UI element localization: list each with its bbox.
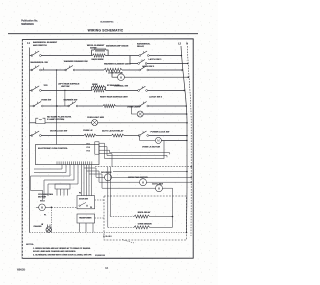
wire rung4 to L2: [149, 105, 186, 107]
svg-text:OVEN LIGHT 40W: OVEN LIGHT 40W: [87, 116, 104, 119]
wire line to lock circuit: [105, 141, 165, 159]
svg-text:OVEN SENSOR: OVEN SENSOR: [138, 223, 153, 225]
svg-text:BAKE 2600W: BAKE 2600W: [92, 58, 104, 61]
switch door lock: [31, 135, 33, 137]
dashed power board outline: [104, 196, 187, 240]
resistor bake element: [93, 54, 106, 57]
junction rung2/L2: [181, 69, 183, 71]
wire door sw line: [96, 176, 105, 178]
svg-text:COOLING FAN: COOLING FAN: [38, 193, 53, 196]
switch thermal: [138, 90, 140, 92]
wire board to P2: [86, 165, 88, 196]
junction lockmotor/N: [188, 76, 190, 78]
wire to lock motor: [112, 70, 118, 77]
junction latch/N: [187, 63, 189, 65]
resistor LF surface element: [103, 105, 115, 108]
connector light assembly: [36, 118, 45, 123]
wire rung1 from L1: [30, 55, 32, 57]
lamp oven cavity: [92, 120, 98, 126]
svg-text:DOOR SW: DOOR SW: [79, 199, 88, 201]
svg-text:RIGHT REAR SURFACE UNIT: RIGHT REAR SURFACE UNIT: [100, 96, 129, 99]
junction dashed/N: [191, 166, 192, 167]
wire rung5: [45, 122, 92, 124]
junction aux/L2: [186, 171, 188, 173]
wire convfan to N: [146, 181, 191, 183]
svg-text:POWER LOCK SW: POWER LOCK SW: [151, 131, 171, 133]
resistor element upper: [93, 86, 105, 89]
wire aux to L2: [113, 171, 187, 173]
motor convection fan: [140, 179, 147, 186]
connector box P5: [77, 214, 95, 223]
frame left edge overdraw dashed: [21, 39, 23, 258]
svg-text:NO NAME PLATE NOTE: NO NAME PLATE NOTE: [47, 116, 72, 119]
wires below P5: [80, 223, 94, 232]
svg-text:P3 1: P3 1: [87, 144, 90, 146]
resistor element lower: [93, 89, 106, 92]
wire doorsw to N: [111, 176, 191, 178]
wire rung2 from L1: [30, 69, 32, 71]
wire rung5 to L2: [98, 122, 187, 124]
switch bake relay contact: [139, 55, 141, 57]
connector box P2: [77, 196, 95, 209]
svg-text:AND SWITCH: AND SWITCH: [33, 44, 47, 47]
wire to lock motor 2: [140, 136, 156, 141]
wire rung6: [41, 135, 84, 137]
svg-text:P2: P2: [90, 207, 92, 209]
motor lock: [118, 74, 125, 81]
svg-text:UNIT SW: UNIT SW: [61, 86, 70, 88]
junction rung4/L2: [185, 105, 187, 107]
wire rung6 mid2: [124, 135, 139, 137]
svg-text:CHASSIS: CHASSIS: [34, 225, 43, 228]
wire branch down: [105, 87, 106, 90]
motor power lock: [155, 137, 161, 143]
svg-text:TOD: TOD: [44, 85, 49, 87]
svg-text:LEFT REAR SURFACE: LEFT REAR SURFACE: [58, 82, 80, 85]
svg-text:Publication No.: Publication No.: [21, 19, 38, 22]
svg-text:OVEN LK MOTOR: OVEN LK MOTOR: [142, 147, 160, 149]
wire board to P2: [91, 165, 93, 196]
svg-text:WARMER SW: WARMER SW: [64, 99, 79, 102]
switch latch 1: [138, 63, 140, 65]
svg-text:HI LO: HI LO: [40, 201, 45, 203]
junction riser rung2: [56, 69, 57, 70]
wire chassis dashed bottom: [30, 232, 187, 234]
wire rung3 mid: [106, 89, 139, 91]
switch warmer drawer: [65, 69, 67, 71]
wire latch to N: [147, 63, 188, 65]
svg-text:THERMAL SW: THERMAL SW: [114, 85, 129, 88]
wire broil branch down: [106, 50, 108, 56]
svg-text:OVEN LK: OVEN LK: [83, 130, 93, 132]
svg-text:LATCH SW 3: LATCH SW 3: [149, 96, 163, 99]
wire board to P2: [88, 165, 90, 196]
wire dashed P2 to relay board: [95, 199, 104, 201]
connector P1 comb: [55, 184, 70, 189]
wire lamp feed riser: [132, 106, 138, 114]
wire rung4: [43, 105, 68, 107]
header rule: [8, 33, 198, 35]
wire rung1 to L2: [149, 55, 181, 57]
svg-text:1. WIRES SHOWN ARE AS VIEWED A: 1. WIRES SHOWN ARE AS VIEWED AT TO REAR …: [33, 247, 91, 250]
svg-text:OVEN SW: OVEN SW: [41, 99, 52, 101]
svg-text:OVEN LIGHT: OVEN LIGHT: [127, 106, 141, 108]
svg-text:CONV FAN MOTOR: CONV FAN MOTOR: [128, 176, 148, 179]
wire L2 bus: [181, 46, 187, 233]
junction rung1/L2: [181, 55, 183, 57]
wire rung6 from L1: [30, 135, 32, 137]
switch power lock: [138, 135, 140, 137]
svg-text:NOTES:: NOTES:: [26, 244, 34, 246]
switch bake/broil S1: [31, 55, 33, 57]
svg-text:AUTO LATCH RELAY: AUTO LATCH RELAY: [102, 129, 124, 132]
svg-text:WARMER ELEMENT 450W: WARMER ELEMENT 450W: [104, 62, 132, 65]
wire N bus (dashed): [187, 46, 191, 236]
schematic border frame: [22, 39, 193, 258]
svg-text:1 2 3 4 5 6: 1 2 3 4 5 6: [103, 235, 112, 238]
resistor broil relay coil: [134, 215, 150, 218]
resistor broil element: [94, 48, 106, 51]
wire oven light to L2: [143, 113, 186, 115]
wire RR element branch up: [92, 87, 93, 90]
switch warmer: [68, 105, 70, 107]
resistor latch coil: [112, 134, 125, 137]
wire fan left stub: [36, 206, 39, 208]
wire rung4 mid2: [116, 105, 140, 107]
wire console boundary dashed: [95, 166, 191, 168]
svg-text:2. SCHEMATIC SHOWN WITH OVEN D: 2. SCHEMATIC SHOWN WITH OVEN DOOR CLOSED…: [33, 254, 92, 257]
wire rung2 to L2: [149, 69, 182, 71]
svg-text:P1: P1: [44, 214, 46, 216]
wire aux 1: [110, 153, 170, 155]
wire stub to door sw: [84, 167, 96, 169]
switch inside P2: [80, 203, 86, 206]
motor cooling fan right: [156, 185, 163, 192]
wire long riser to board: [56, 70, 58, 145]
junction convfan/N: [191, 182, 192, 183]
tick rung2 aux: [43, 68, 45, 70]
wire L1 bus: [29, 48, 31, 233]
svg-text:P3 3: P3 3: [87, 151, 90, 153]
wire down to fan motor: [43, 180, 45, 199]
EOC connector pin comb: [56, 161, 58, 164]
wire broil branch up: [92, 50, 94, 56]
wire rung4 mid: [78, 105, 103, 107]
wire aux 2: [107, 156, 167, 158]
wire board to P2: [81, 165, 83, 196]
wire fan dashed to P2 box: [52, 206, 78, 208]
wire rung5 from L1: [30, 122, 36, 124]
junction L2 end: [186, 232, 188, 234]
wire feed row B: [107, 167, 109, 228]
junction riser rung4: [56, 105, 57, 106]
wire fan right: [45, 206, 51, 208]
junction rung3/L2: [184, 90, 186, 92]
svg-text:P3 2: P3 2: [87, 147, 90, 149]
wire down left: [47, 184, 49, 196]
junction ovenlight/L2: [186, 113, 188, 115]
svg-text:5995384931: 5995384931: [21, 23, 34, 26]
wire rung1: [41, 55, 92, 57]
wire stub to cool fan: [89, 173, 102, 175]
wire stub to conv fan: [87, 170, 100, 172]
svg-text:69626: 69626: [17, 268, 25, 272]
wire rung2: [41, 69, 65, 71]
wire rung3 to L2: [148, 89, 185, 91]
switch latch 2: [139, 105, 141, 107]
wire rung2 mid: [75, 69, 104, 71]
wire left L to fan: [31, 176, 43, 201]
wire rung4 from L1: [30, 105, 34, 107]
svg-text:ELECTRONIC OVEN CONTROL: ELECTRONIC OVEN CONTROL: [38, 148, 68, 150]
wire board to P2: [83, 165, 85, 196]
switch bake/broil S2: [31, 69, 33, 71]
wire lock motor to N: [124, 76, 188, 78]
wire feed row A: [109, 167, 111, 217]
svg-text:SOLID LINES ARE CHASSIS AND GR: SOLID LINES ARE CHASSIS AND GROUNDS.: [33, 250, 76, 253]
resistor warmer element: [104, 68, 122, 71]
wire rung6 mid: [96, 135, 112, 137]
svg-text:BAKE/BROIL ELEMENT: BAKE/BROIL ELEMENT: [33, 41, 58, 44]
switch TOD: [31, 90, 33, 92]
wire fan down to ground line: [51, 207, 53, 232]
svg-text:MOTOR: MOTOR: [38, 196, 46, 198]
wire lead row A: [110, 216, 134, 218]
wire cool fan line: [102, 187, 156, 189]
svg-text:N: N: [186, 43, 188, 46]
wire motor to L2: [161, 139, 187, 141]
svg-text:GLES389FSC: GLES389FSC: [100, 21, 114, 23]
junction relay row A: [172, 216, 174, 218]
svg-text:P2: P2: [79, 193, 81, 195]
wire conv fan line: [99, 181, 140, 183]
wire rung3-rung4 link: [64, 90, 66, 106]
svg-text:318550123: 318550123: [95, 255, 106, 257]
switch lock: [139, 69, 141, 71]
resistor oven sensor: [134, 226, 150, 229]
svg-text:MAXIMUM AMP USAGE: MAXIMUM AMP USAGE: [106, 44, 129, 47]
svg-text:DOOR LOCK SW: DOOR LOCK SW: [50, 130, 68, 132]
wire rung3: [41, 89, 92, 91]
svg-text:BROIL RELAY: BROIL RELAY: [138, 211, 151, 214]
svg-text:RELAY: RELAY: [137, 45, 145, 48]
svg-text:LATCH SW 1: LATCH SW 1: [149, 58, 163, 61]
wire lead row B: [108, 226, 134, 228]
ground chassis lump: [48, 225, 51, 228]
wire pointer dashed diagonal: [122, 240, 134, 244]
svg-text:WARMER DRAWER SW: WARMER DRAWER SW: [64, 60, 89, 63]
switch bake: [33, 105, 35, 107]
junction rung4 riser: [56, 105, 58, 107]
wire coolfan to relay branch: [162, 188, 172, 227]
junction doorsw/N: [191, 177, 192, 178]
wire latch sw branch: [130, 56, 138, 64]
junction motor/L2: [186, 140, 188, 142]
wire pin stubs right of EOC: [99, 143, 105, 158]
connector P3 block on EOC edge: [95, 142, 99, 154]
EOC electronic oven control board box: [36, 145, 100, 165]
svg-text:2 LAMP SYSTEM: 2 LAMP SYSTEM: [47, 118, 64, 121]
junction rung6/L2: [186, 135, 188, 137]
wire fanout left group: [61, 165, 63, 169]
lamp oven light: [137, 111, 143, 117]
svg-text:WIRING SCHEMATIC: WIRING SCHEMATIC: [88, 28, 124, 32]
motor cooling fan: [39, 204, 46, 211]
svg-text:3000W: 3000W: [92, 84, 98, 86]
wire rung1 to bake relay: [106, 55, 140, 57]
wire rung3 from L1: [30, 89, 32, 91]
svg-text:BAKE/BROIL SW: BAKE/BROIL SW: [31, 61, 49, 64]
resistor oven lock coil: [84, 134, 96, 137]
wire rung6 to L2: [149, 135, 187, 137]
wire rung2 to lock switch: [122, 69, 139, 71]
motor door switch: [105, 174, 112, 181]
junction rung5/L2: [186, 122, 188, 124]
